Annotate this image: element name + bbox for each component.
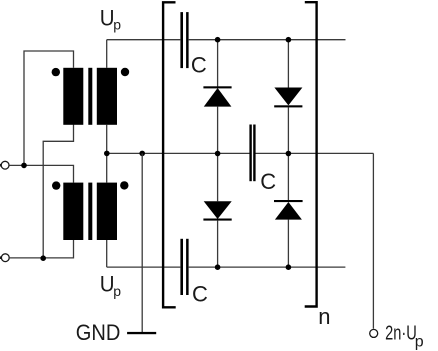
wire GND drop	[141, 153, 143, 332]
node dot top rail col1	[215, 37, 221, 43]
bracket right	[305, 2, 317, 306]
diode D3 triangle (pointing down)	[204, 201, 232, 219]
wire diode column 1 segments	[217, 40, 219, 267]
node dot mid rail col2	[286, 151, 292, 157]
wire diode column 2 segments	[287, 40, 289, 267]
label Up (bottom primary voltage)	[100, 272, 122, 299]
node dot A junction	[21, 163, 27, 169]
svg-text:n: n	[318, 304, 330, 329]
bracket left	[163, 2, 176, 307]
transformer T1 right polarity dot	[121, 68, 129, 76]
diode D2 cathode bar	[274, 105, 302, 107]
node dot mid rail GND tap	[139, 151, 145, 157]
wire bottom rail right segment	[189, 266, 346, 268]
terminal input A circle	[1, 161, 9, 169]
terminal input B circle	[1, 254, 9, 262]
wire top rail right segment	[189, 39, 346, 41]
wire middle rail right segment	[255, 152, 373, 154]
wire bottom rail left segment	[107, 266, 181, 268]
capacitor C1 top right plate	[186, 12, 189, 68]
capacitor C3 bottom right plate	[186, 239, 189, 295]
diode D1 cathode bar	[203, 86, 231, 88]
svg-text:GND: GND	[76, 321, 121, 345]
diode D4 cathode bar	[274, 200, 303, 202]
wire T1 secondary top lead	[106, 40, 108, 68]
svg-text:p: p	[113, 16, 121, 32]
wire T1 primary bottom to node B	[43, 124, 73, 258]
wire output drop	[372, 153, 374, 328]
wire T1 primary top lead loop	[24, 51, 74, 165]
node dot bottom rail col2	[286, 264, 292, 270]
capacitor C3 bottom left plate	[180, 239, 183, 295]
transformer T2 right winding	[97, 183, 117, 240]
transformer T2 right polarity dot	[120, 181, 128, 189]
terminal output circle	[370, 329, 378, 337]
node dot B junction	[40, 255, 46, 261]
node dot top rail col2	[286, 37, 292, 43]
label Up (top primary voltage)	[100, 6, 122, 33]
wire middle rail left segment	[107, 152, 250, 154]
svg-text:C: C	[192, 281, 208, 306]
wire top rail left segment	[107, 39, 181, 41]
node dot mid rail at transformer	[104, 151, 110, 157]
transformer T2 left winding	[63, 183, 83, 240]
svg-text:p: p	[113, 283, 121, 299]
transformer T1 right winding	[97, 68, 117, 125]
ground bar symbol	[127, 332, 156, 334]
svg-text:p: p	[415, 334, 424, 351]
svg-text:2n·U: 2n·U	[385, 321, 417, 344]
diode D3 cathode bar	[203, 219, 231, 221]
node dot mid rail col1	[215, 151, 221, 157]
wire input A to T2 primary top	[9, 165, 73, 182]
node dot bottom rail col1	[215, 264, 221, 270]
svg-text:C: C	[260, 169, 276, 194]
wire input B to T2 primary bottom	[10, 240, 74, 258]
transformer T1 left winding	[63, 68, 83, 125]
transformer T2 core	[88, 183, 92, 240]
label 2n·Up (output voltage)	[385, 321, 424, 351]
capacitor C2 middle right plate	[253, 125, 255, 182]
wire T2 secondary bottom to bottom rail	[106, 240, 108, 267]
capacitor C2 middle left plate	[249, 125, 251, 182]
diode D1 triangle (pointing up)	[204, 88, 232, 107]
wire input A edge stub	[0, 164, 1, 167]
diode D4 triangle (pointing up)	[275, 202, 302, 220]
transformer T1 left polarity dot	[52, 68, 60, 76]
wire T1 secondary bottom through mid rail to T2 secondary top	[106, 124, 108, 182]
capacitor C1 top left plate	[180, 12, 183, 68]
wire input B edge stub	[0, 256, 1, 259]
diode D2 triangle (pointing down)	[274, 88, 302, 106]
transformer T2 left polarity dot	[52, 181, 60, 189]
transformer T1 core	[88, 68, 92, 125]
svg-text:C: C	[191, 53, 207, 78]
